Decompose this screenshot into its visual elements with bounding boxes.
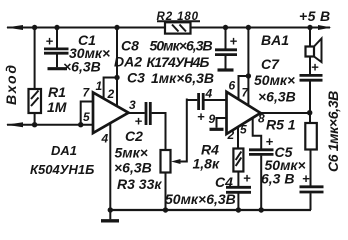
svg-text:1: 1 bbox=[96, 79, 103, 93]
svg-text:К174УН4Б: К174УН4Б bbox=[147, 54, 210, 70]
svg-text:+: + bbox=[230, 34, 238, 49]
svg-text:DA2: DA2 bbox=[114, 54, 142, 70]
svg-text:50мк×6,3В: 50мк×6,3В bbox=[165, 191, 236, 207]
svg-text:+: + bbox=[302, 171, 310, 186]
svg-text:50мк×6,3В: 50мк×6,3В bbox=[150, 38, 213, 54]
svg-text:DA1: DA1 bbox=[51, 143, 77, 158]
svg-text:C2: C2 bbox=[125, 128, 143, 144]
svg-text:R1: R1 bbox=[48, 84, 66, 100]
svg-text:+: + bbox=[46, 34, 54, 49]
svg-text:1мк×6,3В: 1мк×6,3В bbox=[151, 70, 214, 86]
svg-text:+: + bbox=[311, 60, 319, 75]
svg-text:1,8к: 1,8к bbox=[193, 156, 220, 172]
svg-text:×6,3В: ×6,3В bbox=[63, 59, 101, 75]
svg-text:Вход: Вход bbox=[3, 63, 19, 105]
svg-text:R5 1: R5 1 bbox=[266, 117, 296, 133]
svg-text:×6,3В: ×6,3В bbox=[258, 89, 296, 105]
svg-text:6,3 В: 6,3 В bbox=[261, 171, 294, 187]
svg-text:5: 5 bbox=[240, 123, 247, 137]
svg-text:4: 4 bbox=[205, 87, 213, 101]
svg-text:+: + bbox=[266, 134, 274, 149]
svg-text:C3: C3 bbox=[127, 70, 145, 86]
svg-text:5мк×: 5мк× bbox=[115, 145, 148, 161]
svg-text:C7: C7 bbox=[261, 56, 280, 72]
svg-text:+5 В: +5 В bbox=[299, 8, 331, 24]
svg-text:2: 2 bbox=[227, 128, 235, 142]
svg-text:BA1: BA1 bbox=[261, 32, 289, 48]
svg-text:К504УН1Б: К504УН1Б bbox=[30, 162, 94, 177]
svg-text:+: + bbox=[135, 114, 143, 129]
svg-text:2: 2 bbox=[107, 87, 115, 101]
svg-text:9: 9 bbox=[209, 112, 216, 126]
svg-text:50мк×: 50мк× bbox=[254, 72, 295, 88]
svg-text:6: 6 bbox=[229, 79, 236, 93]
svg-text:+: + bbox=[197, 109, 205, 124]
svg-text:C8: C8 bbox=[121, 38, 139, 54]
svg-text:С6 1мк×6,3В: С6 1мк×6,3В bbox=[325, 91, 341, 172]
svg-text:×6,3В: ×6,3В bbox=[114, 160, 152, 176]
svg-text:5: 5 bbox=[83, 110, 90, 124]
svg-text:1М: 1М bbox=[47, 99, 67, 115]
svg-text:+: + bbox=[243, 171, 251, 186]
svg-text:C4: C4 bbox=[215, 174, 233, 190]
svg-text:3: 3 bbox=[129, 98, 136, 112]
svg-text:R3 33к: R3 33к bbox=[117, 176, 162, 192]
svg-text:4: 4 bbox=[101, 132, 109, 146]
